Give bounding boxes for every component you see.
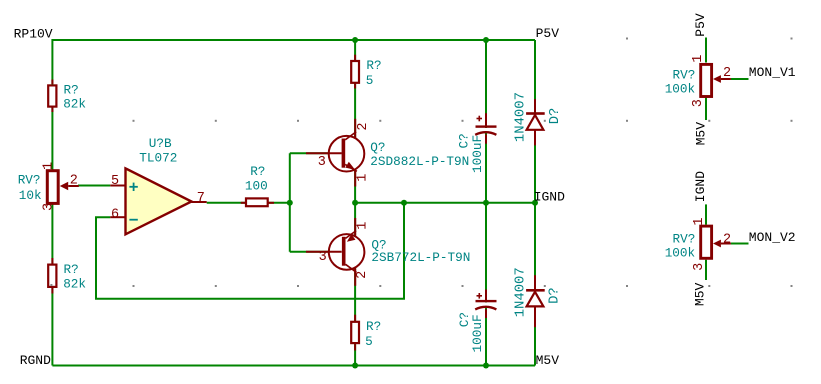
- svg-text:R?: R?: [250, 164, 265, 179]
- wire pot wiper to pin5: [78, 185, 110, 187]
- svg-text:RGND: RGND: [20, 353, 51, 368]
- wire base split column: [290, 153, 342, 251]
- junction IGND emitters: [352, 200, 358, 206]
- resistor R1 82k top: [48, 80, 86, 113]
- svg-text:R?: R?: [64, 82, 79, 97]
- RV4 wiper arrow: [713, 240, 721, 248]
- grid dots: [133, 38, 793, 288]
- svg-text:1: 1: [355, 174, 370, 182]
- diode D2 1N4007 bottom: [512, 267, 562, 327]
- svg-text:2: 2: [356, 122, 371, 130]
- svg-text:MON_V2: MON_V2: [749, 230, 796, 245]
- svg-text:P5V: P5V: [693, 13, 708, 37]
- wire transistor column: [354, 40, 356, 366]
- wire top rail P5V: [52, 39, 535, 41]
- C1 plus mark: [477, 118, 483, 120]
- U1 pin 7 stub: [192, 201, 207, 203]
- junction IGND feedback: [401, 200, 407, 206]
- svg-text:5: 5: [365, 334, 373, 349]
- Q2 emitter pin 1 stub: [354, 218, 356, 236]
- RV1 wiper arrow: [60, 182, 68, 190]
- svg-text:5: 5: [366, 73, 374, 88]
- svg-text:1: 1: [41, 162, 56, 170]
- Q2 collector pin 2 stub: [354, 268, 356, 286]
- svg-text:3: 3: [692, 263, 707, 271]
- svg-text:100k: 100k: [665, 82, 695, 97]
- wire RV4 to M5V: [705, 260, 707, 280]
- U1 pin 5 stub: [110, 185, 125, 187]
- junction M5V rail / C2: [483, 363, 489, 369]
- potentiometer RV4 100k MON_V2: [665, 217, 731, 270]
- svg-text:82k: 82k: [63, 277, 86, 292]
- svg-text:RP10V: RP10V: [14, 26, 53, 41]
- svg-text:RV?: RV?: [18, 172, 41, 187]
- R1 pin 1: [51, 80, 53, 85]
- svg-text:TL072: TL072: [139, 151, 177, 166]
- svg-text:1: 1: [692, 217, 707, 225]
- svg-text:M5V: M5V: [536, 353, 560, 368]
- potentiometer RV1 10k: [18, 162, 79, 211]
- wire left rail: [51, 39, 53, 366]
- svg-text:7: 7: [197, 191, 205, 206]
- wire bottom rail RGND-M5V: [52, 365, 535, 367]
- svg-text:M5V: M5V: [693, 122, 708, 146]
- svg-text:MON_V1: MON_V1: [749, 65, 796, 80]
- R2 pin 1: [51, 258, 53, 264]
- RV3 wiper arrow: [713, 75, 721, 83]
- svg-text:1N4007: 1N4007: [512, 267, 528, 317]
- svg-text:3: 3: [41, 203, 56, 211]
- svg-text:10k: 10k: [19, 188, 42, 203]
- svg-text:2SD882L-P-T9N: 2SD882L-P-T9N: [370, 154, 469, 169]
- wire feedback loop: [96, 203, 404, 299]
- svg-text:D?: D?: [546, 287, 562, 304]
- U1 pin 6 stub: [110, 216, 125, 218]
- svg-text:100: 100: [245, 179, 268, 194]
- R1 pin 2: [51, 107, 53, 112]
- transistor Q2 PNP 2SB772: [306, 218, 470, 286]
- wire IGND to RV4: [705, 204, 707, 224]
- Q2 base pin 3 stub: [306, 251, 342, 253]
- diode D1 1N4007 top: [512, 92, 563, 145]
- U1 plus mark: [129, 186, 137, 188]
- svg-text:U?B: U?B: [149, 136, 172, 151]
- svg-text:1: 1: [355, 222, 370, 230]
- wire RV3 to M5V: [705, 97, 707, 120]
- svg-text:1N4007: 1N4007: [512, 92, 528, 142]
- wire capacitor column: [485, 40, 487, 366]
- wire MON_V2: [731, 243, 749, 245]
- R2 pin 2: [51, 288, 53, 294]
- svg-text:R?: R?: [64, 262, 79, 277]
- resistor R5 5 bottom: [351, 315, 381, 351]
- resistor R2 82k bottom: [48, 258, 86, 294]
- svg-text:2SB772L-P-T9N: 2SB772L-P-T9N: [371, 250, 470, 265]
- svg-text:IGND: IGND: [693, 171, 708, 202]
- potentiometer RV3 100k MON_V1: [665, 55, 731, 108]
- wire P5V to RV3: [705, 38, 707, 63]
- svg-text:100k: 100k: [665, 246, 695, 261]
- resistor R3 100: [241, 164, 274, 206]
- junction M5V rail / R5: [352, 363, 358, 369]
- svg-text:82k: 82k: [63, 97, 86, 112]
- junction base node: [287, 200, 293, 206]
- junction P5V rail / C1: [483, 37, 489, 43]
- U1 minus mark: [129, 219, 137, 221]
- svg-text:2: 2: [70, 173, 78, 188]
- svg-text:R?: R?: [366, 319, 381, 334]
- Q1 base pin 3 stub: [306, 152, 342, 154]
- wire to Q2 base: [290, 251, 342, 253]
- svg-text:5: 5: [111, 174, 119, 189]
- capacitor C2 100uF bottom: [457, 290, 497, 353]
- svg-text:R?: R?: [366, 58, 381, 73]
- svg-text:RV?: RV?: [673, 231, 696, 246]
- svg-text:IGND: IGND: [534, 190, 565, 205]
- wire right diode column: [534, 40, 536, 366]
- svg-text:1: 1: [691, 55, 706, 63]
- transistor Q1 NPN 2SD882: [306, 119, 469, 187]
- svg-text:D?: D?: [547, 108, 563, 125]
- svg-text:P5V: P5V: [536, 26, 560, 41]
- svg-text:6: 6: [111, 207, 119, 222]
- wire IGND rail: [355, 202, 535, 204]
- C2 plus mark: [477, 295, 483, 297]
- Q1 emitter pin 1 stub: [354, 170, 356, 187]
- svg-text:100uF: 100uF: [470, 135, 485, 173]
- junction P5V rail / R4: [352, 37, 358, 43]
- svg-text:3: 3: [319, 250, 327, 265]
- svg-text:2: 2: [355, 271, 370, 279]
- svg-text:100uF: 100uF: [470, 314, 485, 352]
- svg-text:M5V: M5V: [693, 282, 708, 306]
- wire MON_V1: [731, 78, 749, 80]
- svg-text:2: 2: [723, 66, 731, 81]
- wire to Q1 base: [290, 152, 342, 154]
- junction IGND / C2: [483, 200, 489, 206]
- svg-text:3: 3: [318, 155, 326, 170]
- svg-text:RV?: RV?: [673, 68, 696, 83]
- capacitor C1 100uF top: [457, 113, 497, 173]
- resistor R4 5 top: [351, 55, 381, 89]
- svg-text:2: 2: [723, 232, 731, 247]
- op-amp U1 TL072: [110, 136, 206, 234]
- svg-text:3: 3: [691, 99, 706, 107]
- svg-text:Q?: Q?: [370, 140, 385, 155]
- Q1 collector pin 2 stub: [354, 119, 356, 138]
- wire opamp output to base node: [207, 202, 290, 204]
- junction IGND / diodes: [532, 200, 538, 206]
